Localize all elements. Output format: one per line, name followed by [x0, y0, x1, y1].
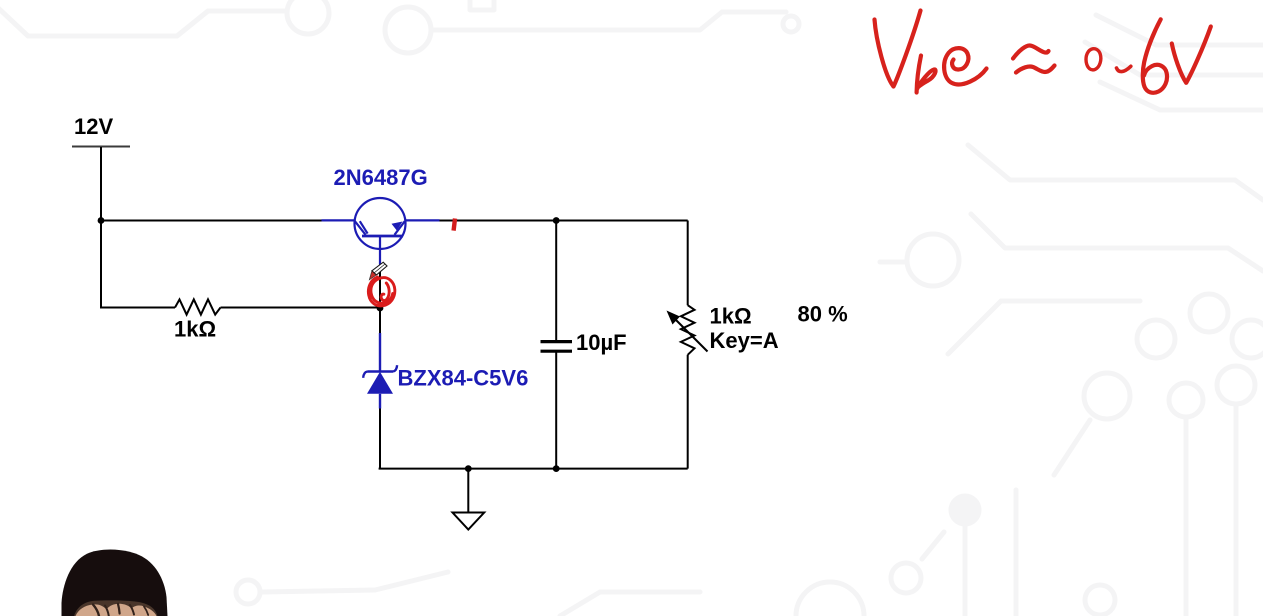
wire base node to zener top [379, 308, 381, 335]
letter V (units) [1172, 27, 1211, 83]
pencil cursor [369, 262, 387, 280]
forehead skin [76, 604, 157, 616]
svg-text:BZX84-C5V6: BZX84-C5V6 [398, 366, 529, 391]
letter e [944, 48, 986, 84]
red scribble circle around base current [368, 277, 394, 306]
approx upper tilde [1013, 45, 1049, 58]
ground stem [467, 469, 469, 513]
vcc bar 12V [72, 146, 130, 148]
zener lead bottom [379, 394, 381, 409]
potentiometer wiper arrow shaft [673, 317, 708, 352]
wire pot branch vertical top [687, 221, 689, 306]
wire cap top lead [555, 221, 557, 342]
capacitor C1 plates [541, 342, 573, 352]
digit 0 [1086, 49, 1101, 70]
potentiometer arrowhead [667, 311, 681, 325]
node: base node [377, 305, 384, 312]
approx lower tilde [1016, 66, 1055, 73]
collector inner wedge [355, 221, 366, 235]
svg-text:2N6487G: 2N6487G [334, 165, 428, 190]
hair dome [62, 550, 168, 616]
svg-text:1kΩ: 1kΩ [710, 304, 752, 329]
zener triangle [367, 372, 393, 394]
node: ground tap [465, 465, 472, 472]
wire lower horizontal: vcc to resistor [101, 307, 175, 309]
wire zener bottom to rail [379, 408, 381, 469]
ground triangle [453, 513, 485, 530]
svg-text:10µF: 10µF [576, 330, 627, 355]
wire top rail right (emitter to pot corner) [440, 220, 688, 222]
emitter lead stub (right) [405, 219, 439, 221]
red handwriting Vbe ~ 0.6V [875, 11, 1211, 93]
base bar [362, 235, 403, 238]
potentiometer zigzag [681, 305, 695, 355]
wire top rail left (collector side) [101, 220, 322, 222]
fringe wisps [93, 604, 148, 616]
svg-text:80 %: 80 % [798, 302, 848, 327]
zener lead top [379, 333, 381, 372]
webcam head bottom-left [62, 550, 168, 616]
zener bar with hooks [363, 365, 397, 378]
svg-text:Key=A: Key=A [710, 328, 779, 353]
wire pot branch vertical bottom [687, 355, 689, 469]
emitter inner line [395, 221, 405, 235]
letter b [917, 56, 936, 93]
transistor circle [355, 198, 406, 249]
wire resistor to base node [221, 307, 381, 309]
wire cap bottom lead [555, 352, 557, 469]
base stem (blue part) [379, 236, 381, 265]
wire vcc vertical [100, 147, 102, 309]
resistor R1 zigzag [175, 299, 221, 314]
node: vcc/collector junction [98, 217, 105, 224]
decimal point dash [1117, 66, 1131, 71]
fringe brown band [74, 600, 158, 616]
node: cap top junction [553, 217, 560, 224]
collector lead stub (left) [322, 219, 355, 221]
digit 6 [1143, 19, 1167, 92]
svg-text:1kΩ: 1kΩ [174, 317, 216, 342]
letter V [875, 11, 921, 87]
svg-text:12V: 12V [74, 114, 113, 139]
red current mark I [454, 219, 455, 231]
emitter arrowhead [392, 222, 403, 231]
wire base stem lower black part [379, 264, 381, 308]
junction dots [98, 217, 560, 472]
node: cap bottom junction [553, 465, 560, 472]
wire bottom rail [379, 468, 688, 470]
